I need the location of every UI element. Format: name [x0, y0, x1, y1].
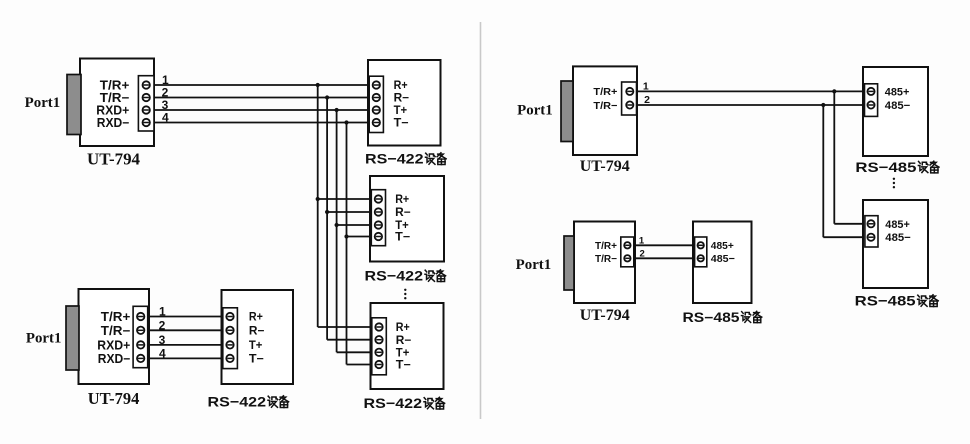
svg-text:1: 1	[643, 80, 649, 92]
converter UT-794 #4 screw terminal T/R−	[624, 255, 630, 261]
svg-text:T−: T−	[396, 360, 411, 372]
svg-text:R+: R+	[249, 312, 263, 324]
wire stub 2 into RS-422 device #2	[327, 211, 373, 213]
svg-text:RS−422: RS−422	[364, 395, 423, 411]
svg-text:R−: R−	[396, 335, 412, 347]
wire 1 UT-794 #2 to RS-422 device #4	[145, 316, 225, 318]
svg-text:2: 2	[644, 94, 650, 106]
svg-text:T+: T+	[249, 340, 263, 352]
svg-text:T/R+: T/R+	[101, 310, 131, 324]
svg-text:RXD+: RXD+	[97, 338, 130, 352]
device caption RS-422 device #3	[364, 395, 445, 411]
device RS-422 #3 screw terminal R−	[375, 336, 382, 343]
svg-text:2: 2	[640, 248, 645, 259]
svg-text:RS−485: RS−485	[855, 159, 916, 175]
divider line between RS-422 (left) and RS-485 (right) halves	[480, 22, 482, 419]
wire vertical drop 485- to RS-485 device #2	[822, 105, 824, 237]
junction dot bus tap 2 at device #2 stub	[325, 210, 329, 214]
converter UT-794 #4 screw terminal T/R+	[624, 242, 630, 248]
device RS-422 #2 screw terminal R−	[375, 208, 382, 215]
svg-text:R−: R−	[395, 207, 411, 219]
junction dot bus tap 2 on wire 2	[325, 95, 329, 99]
converter UT-794 #1 screw terminal T/R+	[143, 81, 150, 88]
svg-text:485−: 485−	[885, 232, 911, 244]
device RS-422 #4 screw terminal T−	[226, 355, 233, 362]
converter UT-794 #4 body	[574, 222, 635, 304]
svg-text:Port1: Port1	[516, 257, 552, 273]
device RS-485 #2 terminal block	[865, 216, 878, 247]
wire stub 1 into RS-422 device #2	[318, 198, 374, 200]
device RS-485 #3 terminal block	[695, 237, 707, 267]
wire 2 UT-794 #3 T/R- to RS-485 device #1 485-	[633, 104, 866, 106]
converter UT-794 #3 body	[573, 66, 637, 155]
converter UT-794 #3 terminal block	[622, 82, 637, 115]
svg-text:T−: T−	[395, 232, 410, 244]
converter UT-794 #3 screw terminal T/R+	[626, 88, 633, 95]
device caption RS-422 device #4	[208, 394, 289, 410]
junction dot bus tap 4 on wire 4	[344, 120, 348, 124]
svg-text:RS−422: RS−422	[208, 394, 267, 410]
device caption RS-485 device #2	[855, 293, 939, 309]
device RS-485 #2 body	[863, 200, 928, 288]
wire elbow 485+ into RS-485 device #2	[834, 223, 866, 225]
svg-text:T−: T−	[249, 354, 264, 366]
device RS-485 #2 screw terminal 485+	[867, 220, 874, 227]
converter UT-794 #3 DB9 connector (gray)	[561, 81, 573, 142]
converter UT-794 #1 screw terminal T/R−	[143, 94, 150, 101]
wire vertical bus tap 3	[336, 110, 338, 352]
device RS-422 #3 screw terminal T−	[375, 361, 382, 368]
converter UT-794 #1 DB9 connector (gray)	[67, 75, 81, 135]
wire elbow 4 into RS-422 device #3	[347, 364, 375, 366]
device RS-485 #1 terminal block	[865, 84, 878, 117]
wire 2 UT-794 #2 to RS-422 device #4	[145, 329, 225, 331]
svg-text:RXD−: RXD−	[98, 352, 131, 366]
device caption RS-422 device #2	[365, 268, 446, 284]
svg-text:4: 4	[162, 111, 169, 125]
device RS-422 #4 screw terminal R−	[226, 327, 233, 334]
device RS-422 #4 terminal block	[223, 308, 238, 369]
svg-text:485−: 485−	[885, 100, 911, 112]
svg-text:T+: T+	[394, 105, 408, 117]
converter UT-794 #2 body	[79, 289, 150, 384]
svg-text:485+: 485+	[711, 240, 734, 252]
wire 3 (RXD+ to T+) UT-794 #1 to RS-422 device #1	[150, 109, 371, 111]
device RS-422 #4 screw terminal R+	[226, 313, 233, 320]
device RS-422 #3 terminal block	[372, 318, 387, 375]
device RS-485 #3 body	[693, 222, 752, 304]
converter UT-794 #1 body	[80, 59, 154, 147]
svg-text:R+: R+	[394, 80, 408, 92]
converter UT-794 #3 screw terminal T/R−	[626, 101, 633, 108]
ellipsis (more RS-422 devices)	[404, 289, 406, 300]
wire vertical bus tap 1	[317, 85, 319, 327]
svg-text:T/R+: T/R+	[593, 86, 617, 98]
junction dot 485- tap	[821, 103, 825, 107]
svg-text:T−: T−	[394, 118, 409, 130]
device RS-485 #1 screw terminal 485−	[867, 101, 874, 108]
wire stub 4 into RS-422 device #2	[347, 236, 374, 238]
svg-text:R−: R−	[249, 325, 265, 337]
device RS-422 #2 screw terminal T−	[375, 233, 382, 240]
wire 1 UT-794 #4 T/R+ to RS-485 device #3 485+	[631, 244, 698, 246]
svg-text:RS−485: RS−485	[855, 293, 916, 309]
device RS-485 #1 body	[863, 67, 928, 156]
wire 2 (T/R- to R-) UT-794 #1 to RS-422 device #1	[150, 97, 371, 99]
svg-text:485−: 485−	[711, 253, 735, 265]
junction dot bus tap 4 at device #2 stub	[344, 234, 348, 238]
svg-text:R−: R−	[394, 93, 410, 105]
junction dot bus tap 1 on wire 1	[316, 83, 320, 87]
svg-text:1: 1	[639, 235, 645, 246]
device RS-422 #2 screw terminal T+	[375, 221, 382, 228]
svg-text:T/R−: T/R−	[101, 324, 131, 338]
junction dot bus tap 1 at device #2 stub	[316, 197, 320, 201]
junction dot 485+ tap	[832, 89, 836, 93]
converter UT-794 #4 DB9 connector (gray)	[564, 236, 574, 290]
svg-text:UT-794: UT-794	[87, 150, 140, 169]
device RS-422 #4 body	[222, 290, 294, 384]
converter UT-794 #2 terminal block	[133, 306, 148, 367]
svg-text:4: 4	[159, 346, 166, 360]
device RS-422 #2 body	[370, 176, 444, 262]
converter UT-794 #2 screw terminal RXD−	[137, 355, 144, 362]
device RS-422 #4 screw terminal T+	[226, 341, 233, 348]
wire elbow 2 into RS-422 device #3	[327, 339, 374, 341]
converter UT-794 #1 terminal block	[138, 76, 154, 131]
device RS-422 #1 screw terminal R+	[373, 81, 380, 88]
svg-text:T/R−: T/R−	[593, 100, 617, 112]
svg-text:UT-794: UT-794	[88, 389, 140, 408]
device RS-422 #3 screw terminal T+	[375, 349, 382, 356]
wire vertical bus tap 2	[326, 98, 328, 340]
svg-text:T/R−: T/R−	[595, 254, 617, 265]
svg-text:RXD−: RXD−	[97, 116, 130, 130]
wire stub 3 into RS-422 device #2	[337, 224, 374, 226]
svg-text:1: 1	[159, 305, 166, 319]
device caption RS-485 device #1	[855, 159, 939, 175]
wire 3 UT-794 #2 to RS-422 device #4	[145, 344, 225, 346]
wire elbow 1 into RS-422 device #3	[318, 326, 374, 328]
device RS-422 #1 screw terminal T+	[373, 106, 380, 113]
wire 4 UT-794 #2 to RS-422 device #4	[145, 357, 225, 359]
converter UT-794 #2 screw terminal T/R−	[137, 327, 144, 334]
device RS-422 #3 body	[371, 303, 444, 389]
device RS-485 #1 screw terminal 485+	[867, 88, 874, 95]
wire elbow 3 into RS-422 device #3	[337, 351, 374, 353]
svg-text:Port1: Port1	[517, 103, 553, 119]
wire vertical bus tap 4	[346, 123, 348, 365]
svg-text:RS−422: RS−422	[365, 268, 424, 284]
converter UT-794 #1 screw terminal RXD+	[143, 106, 150, 113]
svg-text:UT-794: UT-794	[580, 307, 630, 324]
device RS-422 #2 screw terminal R+	[375, 195, 382, 202]
svg-text:T+: T+	[395, 220, 409, 232]
wire 1 UT-794 #3 T/R+ to RS-485 device #1 485+	[633, 90, 866, 92]
svg-text:485+: 485+	[885, 86, 910, 98]
svg-text:3: 3	[159, 333, 166, 347]
wire elbow 485- into RS-485 device #2	[823, 236, 866, 238]
converter UT-794 #1 screw terminal RXD−	[143, 119, 150, 126]
device RS-485 #2 screw terminal 485−	[867, 234, 874, 241]
svg-text:485+: 485+	[885, 219, 910, 231]
device caption RS-485 device #3	[683, 310, 762, 325]
svg-text:RS−422: RS−422	[365, 151, 424, 167]
device RS-485 #3 screw terminal 485−	[698, 255, 704, 261]
device RS-422 #3 screw terminal R+	[375, 323, 382, 330]
svg-text:T+: T+	[396, 347, 410, 359]
converter UT-794 #4 terminal block	[621, 237, 634, 267]
converter UT-794 #2 DB9 connector (gray)	[66, 306, 79, 370]
svg-text:RS−485: RS−485	[683, 310, 741, 325]
device RS-422 #1 screw terminal R−	[373, 94, 380, 101]
svg-text:UT-794: UT-794	[580, 158, 630, 175]
converter UT-794 #2 screw terminal RXD+	[137, 341, 144, 348]
wire 4 (RXD- to T-) UT-794 #1 to RS-422 device #1	[150, 122, 371, 124]
svg-text:R+: R+	[396, 322, 410, 334]
junction dot bus tap 3 on wire 3	[335, 108, 339, 112]
device RS-485 #3 screw terminal 485+	[698, 242, 704, 248]
device RS-422 #1 screw terminal T−	[373, 119, 380, 126]
ellipsis (more RS-485 devices)	[893, 178, 895, 189]
device RS-422 #1 terminal block	[369, 76, 383, 132]
device RS-422 #1 body	[368, 60, 441, 146]
converter UT-794 #2 screw terminal T/R+	[137, 313, 144, 320]
wire 1 (T/R+ to R+) UT-794 #1 to RS-422 device #1	[150, 84, 371, 86]
svg-text:2: 2	[159, 318, 166, 332]
svg-text:T/R+: T/R+	[595, 241, 617, 252]
svg-text:Port1: Port1	[26, 331, 61, 347]
device caption RS-422 device #1	[365, 151, 446, 167]
device RS-422 #2 terminal block	[371, 190, 385, 246]
junction dot bus tap 3 at device #2 stub	[335, 223, 339, 227]
wire 2 UT-794 #4 T/R- to RS-485 device #3 485-	[631, 257, 698, 259]
wire vertical drop 485+ to RS-485 device #2	[833, 91, 835, 223]
svg-text:R+: R+	[395, 194, 409, 206]
svg-text:Port1: Port1	[25, 95, 60, 111]
